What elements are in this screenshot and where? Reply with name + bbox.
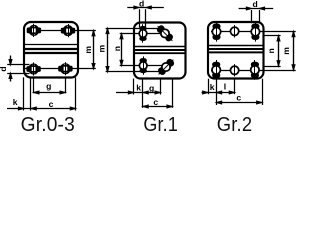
svg-text:l: l [224, 82, 226, 92]
svg-text:d: d [0, 66, 8, 71]
caption Gr.0-3 [21, 114, 75, 136]
diagonal slot top-right Gr.1 [155, 23, 176, 44]
svg-text:k: k [210, 82, 215, 92]
svg-text:k: k [13, 97, 18, 107]
flange plate Gr.0-3 [24, 22, 78, 78]
svg-text:g: g [149, 83, 154, 93]
extension lines below plate Gr.1 [134, 79, 173, 108]
bottom row centerline Gr.1 [120, 65, 163, 67]
slot hole bottom-left Gr.1 [139, 56, 147, 74]
dimension d Gr.2 [239, 7, 274, 23]
dimension k and l line Gr.2 [202, 91, 235, 94]
caption Gr.2 [217, 114, 252, 136]
svg-text:n: n [112, 46, 122, 51]
top row centerline Gr.2 [211, 31, 296, 33]
svg-text:m: m [281, 47, 291, 55]
gasket band lines Gr.1 [135, 47, 185, 54]
dimension k and g line Gr.1 [116, 91, 160, 94]
center hole top Gr.2 [230, 25, 238, 37]
top row centerline Gr.1 [120, 33, 170, 35]
slot hole bottom-left Gr.2 [212, 60, 220, 80]
dimension n Gr.1 [120, 34, 123, 66]
svg-text:d: d [252, 0, 257, 9]
bolt hole top-right Gr.0-3 [61, 24, 74, 37]
diagonal slot bottom-right Gr.1 [156, 57, 177, 78]
bottom row centerline Gr.0-3 [24, 68, 96, 70]
gasket band lines Gr.0-3 [24, 45, 77, 54]
dimension m Gr.1 [106, 28, 109, 72]
dimension m extension lines Gr.1 [106, 29, 161, 72]
svg-text:c: c [49, 99, 54, 109]
dimension g Gr.0-3 [34, 91, 66, 94]
svg-text:Gr.1: Gr.1 [143, 114, 178, 134]
flange plate Gr.2 [208, 22, 264, 79]
slot hole top-left Gr.1 [139, 24, 147, 42]
dimension c Gr.1 [143, 105, 172, 108]
bolt hole bottom-right Gr.0-3 [59, 62, 72, 75]
dimension n Gr.2 [277, 36, 280, 66]
svg-text:Gr.2: Gr.2 [217, 114, 252, 134]
dimension c Gr.2 [216, 101, 262, 104]
svg-text:m: m [83, 46, 93, 54]
svg-text:g: g [46, 81, 51, 91]
center hole bottom Gr.2 [230, 64, 238, 76]
svg-text:c: c [236, 93, 241, 103]
dimension d (hole diameter) Gr.0-3 [7, 56, 29, 82]
bolt hole top-left Gr.0-3 [27, 24, 40, 37]
slot hole top-left Gr.2 [212, 22, 220, 42]
flange plate Gr.1 [134, 23, 186, 79]
dimension n extension lines Gr.2 [264, 36, 281, 67]
dimension m Gr.0-3 [92, 31, 95, 69]
svg-text:k: k [136, 83, 141, 93]
dimension m Gr.2 [292, 31, 295, 70]
svg-text:n: n [266, 48, 276, 53]
slot hole top-right Gr.2 [251, 22, 259, 42]
svg-text:Gr.0-3: Gr.0-3 [21, 114, 75, 134]
bolt hole bottom-left Gr.0-3 [27, 62, 40, 75]
gasket band lines Gr.2 [209, 46, 263, 53]
slot hole bottom-right Gr.2 [251, 60, 259, 80]
top row centerline Gr.0-3 [27, 30, 96, 32]
caption Gr.1 [143, 114, 178, 136]
extension lines below plate Gr.2 [209, 79, 263, 105]
svg-text:m: m [97, 44, 107, 52]
dimension k and c line Gr.0-3 [7, 107, 76, 110]
bottom row centerline Gr.2 [211, 70, 296, 72]
svg-text:c: c [153, 97, 158, 107]
extension lines below plate Gr.0-3 [24, 77, 76, 110]
svg-text:d: d [139, 0, 144, 9]
dimension d Gr.1 [127, 6, 164, 28]
